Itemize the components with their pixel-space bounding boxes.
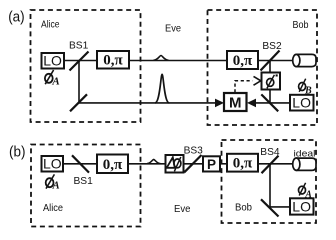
wire Delta-phi to P (b) <box>184 163 204 165</box>
beamsplitter BS4 (b) <box>262 156 279 174</box>
svg-text:0,π: 0,π <box>233 156 253 172</box>
phase modulator 0,pi (Bob a) <box>227 51 258 69</box>
phase modulator 0,pi (Bob b) <box>227 154 258 172</box>
svg-text:Alice: Alice <box>41 20 60 31</box>
wire BS1 down to mirror (a) <box>78 61 80 103</box>
local oscillator LO (Alice a) <box>42 53 65 69</box>
Alice dashed box (a) <box>31 10 141 122</box>
svg-text:Eve: Eve <box>165 24 181 35</box>
svg-text:0,π: 0,π <box>103 157 123 173</box>
wire Alice to Delta-phi (b) <box>128 163 166 165</box>
local oscillator LO (Alice b) <box>42 156 64 172</box>
phase label phi_A (Alice b) <box>46 174 60 191</box>
Bob dashed box (b) <box>222 140 317 223</box>
svg-text:(a): (a) <box>8 10 25 26</box>
svg-text:LO: LO <box>292 95 311 111</box>
svg-text:BS2: BS2 <box>262 41 282 52</box>
mirror below BS4 (b) <box>261 199 279 216</box>
weak pulse on wire (b) <box>147 159 160 163</box>
wire mirror to LO (b) <box>270 206 290 208</box>
phase modulator 0,pi (Alice b) <box>97 155 128 174</box>
svg-text:BS4: BS4 <box>260 147 280 158</box>
svg-text:Alice: Alice <box>43 203 63 214</box>
svg-text:LO: LO <box>43 156 62 172</box>
detector cylinder (a) <box>293 54 316 66</box>
arrowhead into M right (a) <box>247 99 256 108</box>
wire signal Alice to Bob (a) <box>129 60 227 62</box>
svg-text:LO: LO <box>43 53 62 69</box>
detector cylinder ideal (b) <box>293 158 316 170</box>
phase label phi_A (Bob b) <box>299 183 313 201</box>
weak pulse on signal wire (a) <box>154 56 169 61</box>
local oscillator LO (Bob a) <box>290 95 314 111</box>
svg-text:Bob: Bob <box>235 203 252 214</box>
beamsplitter BS3 (b) <box>184 155 201 172</box>
mirror below BS1 (a) <box>70 94 87 111</box>
svg-text:BS3: BS3 <box>184 146 204 157</box>
wire BS4 down to mirror (b) <box>269 164 271 207</box>
open arrowhead into phase shifter (a) <box>254 76 261 85</box>
wire LO to BS1 to 0,pi (b) <box>63 163 97 165</box>
svg-text:0,π: 0,π <box>233 53 253 69</box>
measurement M box (Bob a) <box>224 93 247 112</box>
arrowhead into M left (a) <box>215 99 224 108</box>
polarizer P box (Eve b) <box>203 156 220 172</box>
dashed feedback wire M to phase shifter (a) <box>235 81 253 93</box>
svg-text:LO: LO <box>292 198 311 214</box>
phase modulator 0,pi (Alice a) <box>97 51 129 69</box>
wire 0,pi to detector (a) <box>258 60 294 62</box>
svg-text:0,π: 0,π <box>103 53 123 69</box>
svg-text:A: A <box>51 75 59 87</box>
phase label phi_A (Alice a) <box>45 70 60 87</box>
svg-text:A: A <box>304 190 312 201</box>
svg-text:Bob: Bob <box>293 20 309 31</box>
svg-text:A: A <box>52 181 60 192</box>
beamsplitter BS1 (a) <box>70 52 89 71</box>
svg-text:(b): (b) <box>9 144 26 160</box>
phase shifter phi* box (Bob a) <box>262 73 281 90</box>
Alice dashed box (b) <box>31 145 141 227</box>
wire 0,pi to detector (b) <box>258 163 294 165</box>
svg-text:ideal: ideal <box>294 148 316 158</box>
mirror combiner (Bob a) <box>261 94 278 111</box>
strong reference pulse (a) <box>155 74 169 103</box>
beamsplitter BS2 (a) <box>261 51 280 71</box>
phase disturbance Delta-phi box (Eve b) <box>166 155 184 173</box>
svg-text:B: B <box>304 86 312 97</box>
wire reference Alice to M (a) <box>79 102 217 104</box>
wire phase shifter down to mirror (a) <box>269 90 271 104</box>
Bob dashed box (a) <box>208 10 318 125</box>
wire LO to mirror to M (a) <box>254 102 290 104</box>
wire LO to BS1 to 0,pi (a) <box>64 60 97 62</box>
svg-text:P: P <box>207 157 216 172</box>
wire P to Bob 0,pi (b) <box>220 163 227 165</box>
phase label phi_B (Bob a) <box>299 79 312 97</box>
svg-text:BS1: BS1 <box>69 41 89 52</box>
svg-text:BS1: BS1 <box>74 176 94 187</box>
beamsplitter BS1 (b) <box>72 155 89 172</box>
svg-text:Eve: Eve <box>174 204 191 215</box>
wire BS2 down to phase shifter (a) <box>269 61 271 73</box>
local oscillator LO (Bob b) <box>290 198 314 214</box>
svg-text:M: M <box>229 95 242 112</box>
